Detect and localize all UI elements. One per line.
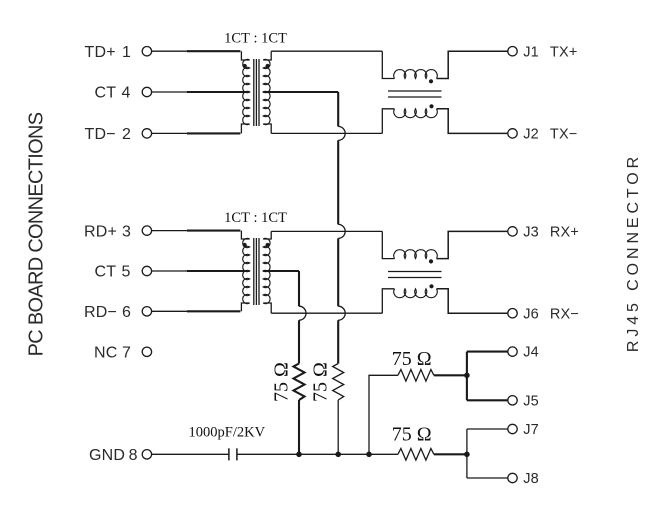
wire pin CT 4 stub [152, 91, 187, 93]
wire R3 to J4/J5 bracket [434, 374, 467, 376]
junction R1-rail [296, 452, 302, 458]
wire TD- 2 to T1 primary bottom (thick) [187, 132, 240, 134]
pin circle GND 8 [142, 450, 151, 459]
wire choke L2 top-right to J3 [437, 231, 508, 258]
junction riser-rail [366, 452, 372, 458]
wire CT 5 to T2 primary center tap (thick) [187, 270, 250, 272]
wire T1 secondary bottom lead [263, 124, 271, 133]
wire R4 to J7/J8 bracket [434, 453, 467, 455]
wire pin CT 5 stub [152, 270, 187, 272]
svg-text:75 Ω: 75 Ω [392, 423, 432, 445]
wire T1 primary bottom lead [241, 124, 249, 133]
wire bracket to J5 (thick) [467, 399, 508, 401]
junction R4-bracket [464, 452, 470, 458]
svg-text:1CT : 1CT: 1CT : 1CT [224, 30, 287, 46]
wire J4/J5 bracket vertical (thick) [466, 352, 468, 401]
wire T1 sec top to choke L1 (node TX+) [271, 50, 382, 52]
pin circle J8 [508, 473, 517, 482]
svg-text:RJ45 CONNECTOR: RJ45 CONNECTOR [625, 153, 642, 352]
choke L1 phase dot bottom [429, 104, 433, 108]
svg-text:TX+: TX+ [550, 44, 578, 60]
transformer T2 phase dot secondary [266, 243, 270, 247]
wire T2 sec top to choke L2 (node RX+) [271, 230, 382, 232]
transformer T1 secondary winding [263, 59, 270, 124]
svg-text:75 Ω: 75 Ω [309, 362, 331, 402]
wire R1 bottom lead to ground rail [298, 400, 300, 454]
crossover of T1 CT line over J3 wire [338, 224, 345, 238]
wire T2 primary bottom lead [241, 303, 249, 311]
svg-text:J6: J6 [523, 306, 539, 322]
crossover of T1 CT line over J2 wire [338, 126, 345, 140]
svg-text:75 Ω: 75 Ω [392, 348, 432, 370]
svg-text:GND8: GND8 [89, 447, 138, 464]
wire pin TD+ 1 stub [152, 50, 187, 52]
choke L2 core [388, 271, 442, 273]
pin circle RD&#8722; 6 [142, 307, 151, 316]
svg-text:J4: J4 [523, 345, 539, 361]
wire T1 CT vertical net (thick) with crossovers [337, 92, 339, 364]
junction R2-rail [335, 452, 341, 458]
wire pin RD+ 3 stub [152, 230, 187, 232]
choke L2 phase dot bottom [429, 284, 433, 288]
wire T1 secondary top lead [263, 51, 271, 60]
choke L1 core [388, 90, 442, 92]
transformer T2 phase dot primary [243, 243, 247, 247]
resistor R1 75 ohm (vertical, RX termination) [294, 364, 305, 401]
wire CT 4 to T1 primary center tap (thick) [187, 91, 250, 93]
wire J7/J8 bracket vertical [466, 429, 468, 478]
resistor R3 75 ohm (J4/J5 termination) [398, 370, 434, 382]
wire T1 secondary center tap (thick) [263, 91, 338, 93]
pin circle TD+ 1 [142, 47, 151, 56]
resistor R2 75 ohm (vertical, TX termination) [333, 364, 344, 401]
transformer T1 phase dot secondary [266, 64, 270, 68]
pin circle J5 [508, 396, 517, 405]
choke L2 phase dot top [429, 259, 433, 263]
wire T2 secondary bottom lead [263, 303, 271, 313]
wire T2 sec bottom to choke L2 [271, 312, 382, 314]
svg-text:TX−: TX− [550, 127, 578, 143]
wire T2 secondary center tap (thick) [263, 270, 299, 272]
pin circle J1 [508, 47, 517, 56]
wire RD+ 3 to T2 primary top (thick) [187, 230, 240, 232]
wire T2 secondary top lead [263, 231, 271, 239]
transformer T2 core [253, 238, 255, 305]
wire bracket to J4 (thick) [467, 351, 508, 353]
svg-text:CT5: CT5 [95, 264, 131, 281]
wire T2 primary top lead [241, 231, 249, 239]
pin circle CT 4 [142, 87, 151, 96]
wire choke L1 top-left lead [382, 51, 394, 78]
wire ground rail from C1 to resistor R4 [237, 453, 398, 455]
transformer T1 primary winding [243, 59, 250, 124]
svg-text:J2: J2 [523, 127, 539, 143]
pin circle J4 [508, 347, 517, 356]
wire choke L1 top-right to J1 [437, 51, 508, 78]
svg-text:75 Ω: 75 Ω [271, 362, 293, 402]
wire T2 CT vertical net (thick) with crossover [298, 271, 300, 364]
wire RD- 6 to T2 primary bottom (thick) [187, 310, 240, 312]
svg-text:J3: J3 [523, 225, 539, 241]
wire bracket to J8 [467, 477, 508, 479]
choke L1 top winding [394, 70, 438, 79]
choke L2 bottom winding [394, 289, 438, 298]
pin circle J2 [508, 129, 517, 138]
svg-text:TD+1: TD+1 [85, 44, 132, 61]
wire riser from rail to resistor R3 [369, 375, 398, 454]
pin circle TD&#8722; 2 [142, 129, 151, 138]
wire choke L2 top-left lead [382, 231, 394, 258]
svg-text:J1: J1 [523, 44, 539, 60]
svg-text:RD+3: RD+3 [84, 223, 131, 240]
transformer T1 core [253, 59, 255, 126]
svg-text:PC BOARD CONNECTIONS: PC BOARD CONNECTIONS [26, 112, 48, 356]
svg-text:TD−2: TD−2 [85, 126, 132, 143]
crossover of T1 CT line over J6 wire [338, 306, 345, 320]
pin circle J6 [508, 309, 517, 318]
svg-text:NC7: NC7 [94, 345, 131, 362]
wire pin TD- 2 stub [152, 132, 187, 134]
wire pin RD- 6 stub [152, 310, 187, 312]
wire R2 bottom lead to ground rail [337, 400, 339, 454]
choke L1 bottom winding [394, 109, 438, 118]
svg-text:CT4: CT4 [95, 85, 131, 102]
wire choke L1 bottom-right to J2 [437, 109, 508, 134]
svg-text:J7: J7 [523, 422, 539, 438]
svg-text:1CT : 1CT: 1CT : 1CT [224, 210, 287, 226]
pin circle NC 7 [142, 347, 151, 356]
wire choke L2 bottom-right to J6 [437, 289, 508, 313]
wire T1 primary top lead [241, 51, 249, 60]
wire choke L2 bottom-left lead [382, 289, 394, 313]
svg-text:RD−6: RD−6 [84, 304, 131, 321]
junction R3-bracket [464, 373, 470, 379]
svg-text:RX−: RX− [550, 306, 579, 322]
pin circle J3 [508, 227, 517, 236]
svg-text:J5: J5 [523, 393, 539, 409]
resistor R4 75 ohm (J7/J8 termination) [398, 449, 434, 461]
crossover of T2 CT line over J6 wire [299, 306, 306, 320]
pin circle CT 5 [142, 266, 151, 275]
transformer T1 phase dot primary [243, 64, 247, 68]
svg-text:1000pF/2KV: 1000pF/2KV [189, 425, 266, 441]
transformer T2 primary winding [243, 238, 250, 303]
svg-text:J8: J8 [523, 471, 539, 487]
capacitor C1 plates [228, 448, 230, 460]
wire T1 sec bottom along TD- row to choke L1 [271, 132, 382, 134]
svg-text:RX+: RX+ [550, 225, 579, 241]
choke L2 top winding [394, 250, 438, 259]
pin circle RD+ 3 [142, 226, 151, 235]
wire bracket to J7 [467, 428, 508, 430]
wire GND 8 to capacitor C1 [152, 453, 229, 455]
wire TD+ 1 to T1 primary top (thick) [187, 50, 240, 52]
choke L1 phase dot top [429, 79, 433, 83]
wire choke L1 bottom-left lead [382, 109, 394, 134]
transformer T2 secondary winding [263, 238, 270, 303]
pin circle J7 [508, 424, 517, 433]
